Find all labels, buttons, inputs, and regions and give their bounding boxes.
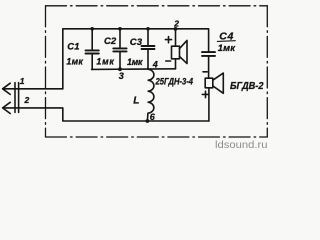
svg-text:2: 2 (173, 18, 179, 28)
svg-text:C4: C4 (219, 30, 233, 42)
svg-text:1: 1 (20, 76, 25, 86)
svg-text:БГДВ-2: БГДВ-2 (230, 81, 264, 92)
svg-text:25ГДН-3-4: 25ГДН-3-4 (155, 77, 194, 87)
svg-text:1мк: 1мк (218, 42, 236, 53)
svg-text:1мк: 1мк (66, 56, 83, 66)
svg-text:1мк: 1мк (96, 57, 114, 67)
svg-text:3: 3 (119, 71, 124, 81)
svg-text:4: 4 (152, 60, 158, 70)
svg-text:2: 2 (24, 95, 30, 105)
svg-text:C3: C3 (130, 37, 143, 48)
svg-text:C2: C2 (104, 36, 117, 47)
svg-text:1мк: 1мк (127, 57, 143, 67)
svg-text:C1: C1 (67, 42, 79, 53)
svg-text:ldsound.ru: ldsound.ru (215, 140, 268, 150)
svg-text:L: L (133, 96, 139, 107)
